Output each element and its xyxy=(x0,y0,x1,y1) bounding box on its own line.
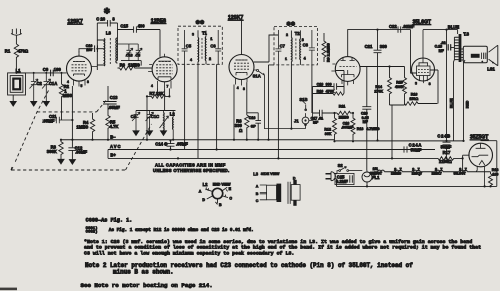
svg-text:C: C xyxy=(229,196,232,200)
svg-text:R12: R12 xyxy=(324,127,331,131)
svg-text:35L6GT: 35L6GT xyxy=(413,19,431,25)
svg-text:S1A: S1A xyxy=(253,74,261,79)
svg-text:R7 22K: R7 22K xyxy=(149,91,163,96)
node (C11 junction) xyxy=(71,119,73,121)
IF transformer T2 (dashed box) xyxy=(274,22,317,65)
trimmer C3 xyxy=(129,44,142,61)
wire (V5 grid) xyxy=(411,30,418,73)
tube V6 35Z5GT envelope xyxy=(469,143,493,167)
svg-text:✱: ✱ xyxy=(104,7,111,16)
resistor R8 330 ohm xyxy=(235,115,249,140)
svg-text:50MF: 50MF xyxy=(441,144,452,149)
wire (V4 diode plate to R14) xyxy=(360,66,405,68)
svg-text:B: B xyxy=(219,203,222,207)
wire (V4 plate up) xyxy=(348,30,411,57)
svg-text:8: 8 xyxy=(429,82,431,86)
tube V4 12SQ7 envelope xyxy=(335,57,360,82)
ground (C1A) xyxy=(43,102,49,107)
svg-text:8: 8 xyxy=(87,80,89,84)
bus AVC line xyxy=(108,149,435,151)
resistor R18 180 xyxy=(489,168,499,186)
wire (V5 plate top to T3) xyxy=(423,30,458,34)
oscillator coil L2 xyxy=(160,111,176,140)
antenna xyxy=(11,29,22,45)
svg-text:A: A xyxy=(256,184,259,188)
svg-text:C.23: C.23 xyxy=(435,45,443,49)
svg-text:C3: C3 xyxy=(136,53,141,57)
capacitor C10 100 xyxy=(86,44,105,52)
svg-text:270K: 270K xyxy=(374,89,383,93)
capacitor C8 xyxy=(303,30,315,65)
svg-text:RED: RED xyxy=(466,100,470,108)
svg-text:C3 will not have a low enough: C3 will not have a low enough minimum ca… xyxy=(84,250,294,256)
svg-text:C21: C21 xyxy=(365,44,373,49)
svg-text:C16: C16 xyxy=(126,53,133,57)
svg-text:LS1: LS1 xyxy=(487,67,495,72)
resistor R1 470 ohm xyxy=(5,44,29,73)
svg-text:.005MF: .005MF xyxy=(341,126,354,130)
svg-text:C14 ✱: C14 ✱ xyxy=(155,141,168,146)
wire (osc bus) xyxy=(136,110,176,112)
svg-text:AVC: AVC xyxy=(110,144,122,149)
svg-text:MF: MF xyxy=(313,121,319,125)
wire (T2 secondary bottom to J1) xyxy=(290,65,292,129)
svg-text:C8: C8 xyxy=(303,42,309,47)
transformer L3 xyxy=(97,31,117,66)
svg-text:.02: .02 xyxy=(441,41,446,45)
svg-text:T1: T1 xyxy=(202,30,208,35)
capacitor C13 .05MF and resistor R5 4.7K xyxy=(103,86,120,140)
trimmer C4 xyxy=(131,111,140,131)
svg-text:✱✱: ✱✱ xyxy=(196,20,205,26)
svg-text:T2: T2 xyxy=(295,31,301,36)
ground (C4) xyxy=(133,131,139,136)
tube V4 internals xyxy=(331,58,374,86)
resistor R12 30K xyxy=(324,112,336,142)
svg-text:1MEG: 1MEG xyxy=(128,62,140,67)
T2 windings xyxy=(291,30,305,65)
resistor R14 270K xyxy=(374,65,391,105)
svg-text:C2: C2 xyxy=(37,81,43,86)
svg-text:C600—As Fig. 1.: C600—As Fig. 1. xyxy=(86,218,133,224)
IF transformer T1 (dashed box) xyxy=(178,20,222,65)
svg-text:C15: C15 xyxy=(120,23,128,28)
svg-text:B−: B− xyxy=(110,135,116,140)
svg-text:300K: 300K xyxy=(47,149,57,154)
switch S2 xyxy=(337,163,362,173)
capacitor C21 380 xyxy=(365,29,388,142)
svg-text:35L6GT: 35L6GT xyxy=(454,172,466,176)
svg-text:.05MF: .05MF xyxy=(42,119,54,124)
svg-text:MF: MF xyxy=(439,49,445,53)
capacitor C11 .05MF xyxy=(42,114,72,124)
capacitor C7 xyxy=(275,30,288,65)
svg-text:GP: GP xyxy=(251,125,257,129)
output transformer T3 xyxy=(454,32,469,62)
ground (R3) xyxy=(58,159,64,164)
L3 side view xyxy=(253,171,300,205)
capacitor C17 .01MF xyxy=(311,110,337,125)
wire (C8 down to det) xyxy=(311,65,313,113)
capacitor C18 .005MF xyxy=(341,121,354,129)
bus B+ line xyxy=(108,157,438,159)
svg-text:C5: C5 xyxy=(186,43,192,48)
svg-text:1: 1 xyxy=(285,57,287,61)
ground (loop) xyxy=(10,102,16,107)
wire (rectifier plate to edge riser) xyxy=(481,140,497,142)
ground (C2) xyxy=(31,102,37,107)
capacitor C6 xyxy=(210,30,221,64)
svg-text:L2: L2 xyxy=(170,111,176,116)
resistor R17 2100 ohm xyxy=(438,150,462,164)
svg-text:35Z5GT: 35Z5GT xyxy=(370,172,382,176)
capacitor C24B 50MF xyxy=(437,133,451,159)
svg-text:R17: R17 xyxy=(443,150,451,155)
wire (AC return line) xyxy=(337,141,497,187)
svg-text:MF: MF xyxy=(363,120,369,124)
svg-text:4: 4 xyxy=(190,58,192,62)
svg-text:C13: C13 xyxy=(110,95,118,100)
svg-text:T.3: T.3 xyxy=(463,32,469,37)
node (R7 right) xyxy=(168,95,170,97)
dashed gang line xyxy=(11,91,152,171)
ground (L2) xyxy=(161,131,167,136)
capacitor C9 100 xyxy=(43,67,62,76)
svg-text:R11: R11 xyxy=(339,105,345,109)
svg-text:PL1: PL1 xyxy=(372,175,380,180)
svg-text:R9 2.2MEG: R9 2.2MEG xyxy=(327,43,331,62)
svg-text:.05MF: .05MF xyxy=(108,105,120,110)
svg-text:50MF: 50MF xyxy=(411,147,422,152)
svg-text:0.05: 0.05 xyxy=(362,116,369,120)
resistor R7 22K xyxy=(147,91,169,98)
svg-text:5: 5 xyxy=(81,84,83,88)
wire (T1 primary bottom to B+) xyxy=(185,64,198,158)
svg-text:4.7K: 4.7K xyxy=(110,124,119,129)
svg-text:C6: C6 xyxy=(210,43,216,48)
wire (T2 pin4 to B+) xyxy=(277,65,279,158)
svg-text:R1: R1 xyxy=(5,48,11,53)
svg-text:8: 8 xyxy=(243,87,245,91)
svg-text:30K: 30K xyxy=(325,132,332,136)
svg-text:BLUE: BLUE xyxy=(448,25,460,30)
svg-text:J1: J1 xyxy=(294,119,299,124)
svg-text:✱✱: ✱✱ xyxy=(287,22,296,28)
svg-text:C20: C20 xyxy=(361,111,368,115)
svg-text:S2: S2 xyxy=(338,163,344,168)
svg-text:470Ω: 470Ω xyxy=(18,48,29,53)
svg-text:L1: L1 xyxy=(16,68,22,73)
svg-text:MEG: MEG xyxy=(63,93,73,98)
wire (trimmer bottoms) xyxy=(121,61,141,66)
resistor R4 1MEG xyxy=(76,113,94,140)
svg-text:As Fig. 1 except R12 is 68000: As Fig. 1 except R12 is 68000 ohms and C… xyxy=(109,228,254,233)
svg-text:400: 400 xyxy=(138,23,146,28)
svg-text:BLUE: BLUE xyxy=(449,98,453,108)
svg-text:35Z5GT: 35Z5GT xyxy=(470,135,488,141)
wire (R7 drops) xyxy=(147,88,169,139)
svg-text:7: 7 xyxy=(167,85,169,89)
trimmer C1C xyxy=(146,111,160,131)
svg-text:1/4: 1/4 xyxy=(373,167,378,171)
svg-text:380: 380 xyxy=(380,44,388,49)
svg-text:D: D xyxy=(202,198,205,202)
svg-text:C22: C22 xyxy=(389,24,397,29)
svg-text:.08MF: .08MF xyxy=(75,150,87,155)
svg-text:2100Ω: 2100Ω xyxy=(439,159,452,164)
svg-text:R16: R16 xyxy=(411,92,418,96)
L2 end view xyxy=(199,182,233,207)
svg-text:C602): C602) xyxy=(86,230,98,235)
wire (B+ to rectifier cathode) xyxy=(463,155,470,171)
svg-text:150Ω: 150Ω xyxy=(409,97,418,101)
svg-text:L3: L3 xyxy=(253,171,259,176)
svg-text:100: 100 xyxy=(54,67,62,72)
svg-text:C19: C19 xyxy=(317,83,324,87)
switch S1B and jack J1 xyxy=(294,97,313,126)
svg-text:12SK7: 12SK7 xyxy=(432,172,442,176)
svg-text:2: 2 xyxy=(209,57,211,61)
svg-text:R18: R18 xyxy=(492,168,499,172)
tube V6 internals xyxy=(472,143,489,186)
svg-text:C1C: C1C xyxy=(151,114,159,119)
svg-text:R15: R15 xyxy=(396,81,403,85)
T1 windings xyxy=(198,30,212,64)
svg-text:C4: C4 xyxy=(131,114,137,119)
switch S1A xyxy=(253,69,306,128)
svg-text:B: B xyxy=(256,192,259,196)
svg-text:S1B: S1B xyxy=(299,97,307,102)
svg-text:A: A xyxy=(199,189,202,193)
svg-text:L3: L3 xyxy=(106,31,112,36)
tube V1 internals xyxy=(67,50,97,88)
svg-text:12SK7: 12SK7 xyxy=(68,19,84,25)
svg-text:12BE6: 12BE6 xyxy=(151,18,167,24)
resistor R11 2MEG xyxy=(337,105,353,120)
capacitor C23 .02 xyxy=(435,30,455,142)
wire (T2 pin1 to B-) xyxy=(269,65,275,140)
svg-text:and to prevent a condition of: and to prevent a condition of loss of se… xyxy=(84,245,481,251)
svg-text:3: 3 xyxy=(192,32,194,36)
capacitor C12 .08MF xyxy=(68,140,87,160)
svg-text:R10: R10 xyxy=(317,90,324,94)
capacitor C20 0.05MF xyxy=(361,67,371,171)
svg-text:C16: C16 xyxy=(249,116,256,120)
resistor R3 300K xyxy=(47,140,63,157)
wire (V1 plate to C10) xyxy=(79,49,93,50)
variable capacitor C1A xyxy=(42,73,57,101)
variable capacitor C2 xyxy=(30,73,43,101)
resistor R6 1MEG xyxy=(118,62,153,70)
svg-text:B+: B+ xyxy=(110,152,116,157)
svg-text:380: 380 xyxy=(326,83,332,87)
gang line corner tick xyxy=(11,167,13,171)
node dots on buses xyxy=(60,139,259,160)
resistor R13 4.7MEG xyxy=(351,112,380,142)
ground (C12) xyxy=(69,160,75,165)
wire (left leg to C26) xyxy=(96,23,98,70)
svg-text:4: 4 xyxy=(151,84,153,88)
wire (V3 pins down) xyxy=(234,82,247,140)
svg-text:END VIEW: END VIEW xyxy=(213,182,231,186)
svg-text:490K: 490K xyxy=(395,85,404,89)
bus B- line xyxy=(61,140,465,141)
tube V2 internals xyxy=(148,54,173,89)
svg-text:See Note re motor boating on P: See Note re motor boating on Page 214. xyxy=(81,282,213,289)
wire grid bus xyxy=(16,72,66,74)
capacitor C14 .05MF xyxy=(155,139,188,150)
wire (diode return) xyxy=(336,71,344,94)
svg-text:C24B: C24B xyxy=(437,133,451,138)
wire (T1 secondary to AVC) xyxy=(216,64,218,149)
capacitor C26 3 (star note) xyxy=(96,7,117,27)
page bottom-left corner mark xyxy=(0,288,17,291)
wire (cathode column) xyxy=(71,86,73,140)
svg-text:1MEG: 1MEG xyxy=(76,125,88,130)
capacitor C19 380 xyxy=(313,83,345,90)
svg-text:*Note 1: C26 (3 mmf. ceramic): *Note 1: C26 (3 mmf. ceramic) was used i… xyxy=(84,239,472,245)
resistor R15 490K xyxy=(390,67,407,160)
svg-text:470K: 470K xyxy=(326,90,335,94)
svg-text:R13: R13 xyxy=(357,127,364,131)
svg-text:180: 180 xyxy=(492,172,498,176)
svg-text:L2: L2 xyxy=(203,182,209,187)
tube V1 12SK7 envelope xyxy=(67,56,92,81)
resistor R10 470K xyxy=(313,87,345,114)
svg-text:4.7MEG: 4.7MEG xyxy=(366,127,379,131)
svg-text:4: 4 xyxy=(304,57,306,61)
svg-text:ALL CAPACITIES ARE IN MMF: ALL CAPACITIES ARE IN MMF xyxy=(155,162,226,167)
resistor R2 1 MEG xyxy=(59,73,72,120)
wire (V3 plate to T2) xyxy=(254,35,278,62)
svg-text:UNLESS OTHERWISE SPECIFIED.: UNLESS OTHERWISE SPECIFIED. xyxy=(153,168,230,173)
capacitor C5 xyxy=(182,30,194,64)
power plug xyxy=(326,172,338,187)
capacitor C16 (cathode bypass) xyxy=(247,113,261,140)
node (R7 left) xyxy=(146,95,148,97)
ground (C1C) xyxy=(147,131,153,136)
tube V3 internals xyxy=(234,60,256,91)
filament string xyxy=(370,167,491,177)
trimmer C16 xyxy=(118,44,133,61)
tube V5 35L6GT envelope xyxy=(412,58,435,81)
resistor R16 150 ohm xyxy=(405,70,439,105)
svg-text:2MEG: 2MEG xyxy=(339,115,349,119)
wire (V3 grid top) xyxy=(241,21,243,55)
svg-text:C1A: C1A xyxy=(49,81,57,86)
wire (right leg) xyxy=(117,23,119,61)
svg-text:.05MF: .05MF xyxy=(176,141,188,146)
svg-text:100: 100 xyxy=(86,48,92,52)
svg-text:3: 3 xyxy=(415,82,417,86)
svg-text:R14: R14 xyxy=(375,85,382,89)
svg-text:12SQ7: 12SQ7 xyxy=(412,172,422,176)
svg-text:C7: C7 xyxy=(280,43,286,48)
svg-text:R6: R6 xyxy=(120,62,126,67)
svg-text:4: 4 xyxy=(237,86,239,90)
resistor R9 2.2MEG xyxy=(322,33,331,62)
loop antenna L1 xyxy=(8,68,26,101)
svg-text:12SK7: 12SK7 xyxy=(228,15,244,21)
svg-text:1: 1 xyxy=(210,37,212,41)
svg-text:4: 4 xyxy=(67,80,69,84)
capacitor C15 400 xyxy=(118,23,161,57)
svg-text:C 26: C 26 xyxy=(96,17,106,22)
tube V2 12BE6 envelope xyxy=(152,57,177,82)
svg-text:minus B as shown.: minus B as shown. xyxy=(113,268,174,275)
tube V3 12SK7 envelope xyxy=(229,55,254,80)
svg-text:2: 2 xyxy=(286,33,288,37)
capacitor C22 .02MF xyxy=(389,24,415,33)
wires (T3 primary down, RED/BLUE) xyxy=(454,60,466,141)
tube V5 internals xyxy=(415,30,431,86)
loudspeaker LS1 xyxy=(463,45,498,71)
svg-text:D: D xyxy=(293,176,296,180)
node (AVC at C6) xyxy=(216,148,218,150)
svg-text:0.2MF: 0.2MF xyxy=(336,179,348,184)
svg-text:C: C xyxy=(256,199,259,203)
pilot lamp PL1 xyxy=(362,171,380,188)
svg-text:C9: C9 xyxy=(43,67,49,72)
capacitor C24A 50MF xyxy=(400,143,422,153)
svg-text:3: 3 xyxy=(302,38,304,42)
capacitor C25 0.2MF xyxy=(335,173,354,184)
svg-text:12BE6: 12BE6 xyxy=(391,172,401,176)
svg-text:SIDE VIEW: SIDE VIEW xyxy=(261,172,280,176)
